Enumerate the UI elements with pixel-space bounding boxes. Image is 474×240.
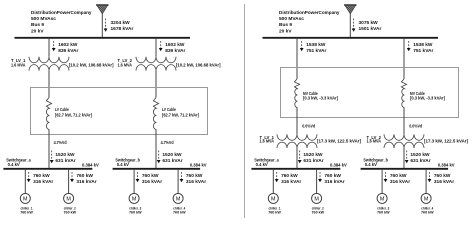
svg-text:316 kVAr: 316 kVAr <box>33 179 53 185</box>
switchgear flow labels Switchgear_b (R) <box>410 152 430 164</box>
cable LV Cable 1 <box>46 98 51 130</box>
wire Switchgear_b (L) to chiller_3 <box>133 169 135 194</box>
svg-text:0.4 kV: 0.4 kV <box>8 162 20 167</box>
load flow labels chiller_3 (R) <box>390 173 410 185</box>
svg-text:M: M <box>176 196 181 202</box>
motor labels chiller_2 (L) <box>64 206 77 215</box>
svg-text:1602 kW: 1602 kW <box>58 42 78 48</box>
bus Switchgear_a (L) 0.4 kV <box>3 168 92 170</box>
divider line between subsystems <box>244 4 246 218</box>
svg-text:20 kV: 20 kV <box>279 28 292 34</box>
svg-text:316 kVAr: 316 kVAr <box>390 179 410 185</box>
svg-text:[10.2 kW, 106.68 kVAr]: [10.2 kW, 106.68 kVAr] <box>69 63 114 68</box>
switchgear name label Switchgear_b (R) <box>363 157 388 167</box>
svg-text:0.0%Vd: 0.0%Vd <box>409 123 422 128</box>
svg-text:M: M <box>271 196 276 202</box>
wire LV Cable 2 to Switchgear <box>155 130 157 169</box>
svg-text:0.384 kV: 0.384 kV <box>82 163 99 168</box>
svg-text:316 kVAr: 316 kVAr <box>434 179 454 185</box>
load flow arrow chiller_2 (L) <box>70 172 74 182</box>
load flow arrow chiller_1 (R) <box>275 172 279 182</box>
transformer T_LV_2 1.6 MVA (R) <box>384 134 424 148</box>
load flow arrow chiller_3 (R) <box>384 172 388 182</box>
svg-text:LV Cable: LV Cable <box>162 107 176 112</box>
motor chiller_3 (L) <box>129 193 139 203</box>
switchgear flow arrow Switchgear_b (L) <box>157 151 161 164</box>
svg-text:760 kW: 760 kW <box>173 210 186 215</box>
switchgear flow arrow Switchgear_a (R) <box>298 151 302 164</box>
svg-text:1520 kW: 1520 kW <box>55 152 75 158</box>
motor labels chiller_2 (R) <box>312 206 325 215</box>
svg-text:0.0%Vd: 0.0%Vd <box>302 123 315 128</box>
cable LV Cable 2 labels <box>162 107 200 118</box>
svg-text:DistributionPowerCompany: DistributionPowerCompany <box>279 10 340 16</box>
load flow labels chiller_3 (L) <box>142 173 162 185</box>
feeder value labels branch 2 <box>165 42 185 54</box>
svg-text:316 kVAr: 316 kVAr <box>76 179 96 185</box>
svg-text:[0.3 kW, -3.3 kVAr]: [0.3 kW, -3.3 kVAr] <box>410 96 446 101</box>
load flow labels chiller_2 (R) <box>324 173 344 185</box>
svg-text:3204 kW: 3204 kW <box>111 20 131 26</box>
svg-text:316 kVAr: 316 kVAr <box>324 179 344 185</box>
svg-text:3075 kW: 3075 kW <box>359 20 379 26</box>
svg-text:1538 kW: 1538 kW <box>306 42 326 48</box>
motor labels chiller_3 (L) <box>129 206 142 215</box>
svg-text:751 kVAr: 751 kVAr <box>306 48 326 54</box>
wire Switchgear_a (L) to chiller_2 <box>68 169 70 194</box>
svg-text:[10.2 kW, 106.68 kVAr]: [10.2 kW, 106.68 kVAr] <box>176 63 221 68</box>
svg-text:760 kW: 760 kW <box>142 173 159 179</box>
svg-text:760 kW: 760 kW <box>324 173 341 179</box>
svg-text:500 MVAsc: 500 MVAsc <box>31 16 56 22</box>
grid infeed flow arrow (L) <box>104 19 108 32</box>
wire MV Cable 1 to T_LV_1 (R) <box>296 108 298 135</box>
load flow arrow chiller_2 (R) <box>318 172 322 182</box>
svg-text:760 kW: 760 kW <box>186 173 203 179</box>
svg-text:1520 kW: 1520 kW <box>410 152 430 158</box>
switchgear name label Switchgear_a (R) <box>254 157 279 167</box>
wire Bus 9 to T_LV_1 <box>48 38 50 57</box>
svg-text:839 kVAr: 839 kVAr <box>58 48 78 54</box>
motor chiller_2 (L) <box>64 193 74 203</box>
transformer T_LV_1 name label <box>11 58 26 67</box>
svg-text:1501 kVAr: 1501 kVAr <box>359 26 382 32</box>
feeder value labels branch 4 <box>413 42 433 54</box>
wire Switchgear_b (R) to chiller_3 <box>381 169 383 194</box>
svg-text:500 MVAsc: 500 MVAsc <box>279 16 304 22</box>
bus Switchgear_b (L) 0.4 kV <box>113 168 201 170</box>
svg-text:0.4 kV: 0.4 kV <box>365 162 377 167</box>
transformer T_LV_2 1.6 MVA <box>136 57 176 71</box>
svg-text:839 kVAr: 839 kVAr <box>165 48 185 54</box>
cable MV Cable 1 <box>294 79 299 107</box>
svg-text:Bus 9: Bus 9 <box>279 22 292 28</box>
wire grid to Bus 9 (L) <box>101 14 103 38</box>
svg-text:Bus 9: Bus 9 <box>31 22 44 28</box>
external grid DistributionPowerCompany (R) <box>315 5 384 15</box>
grid infeed value labels (R) <box>359 20 382 32</box>
switchgear flow labels Switchgear_a (R) <box>303 152 323 164</box>
motor labels chiller_4 (L) <box>173 206 186 215</box>
motor chiller_4 (L) <box>173 193 183 203</box>
svg-text:1.6 MVA: 1.6 MVA <box>260 138 275 143</box>
cable MV Cable 2 <box>401 79 406 107</box>
transformer T_LV_1 name label (R) <box>260 135 275 144</box>
svg-text:0.384 kV: 0.384 kV <box>438 163 455 168</box>
wire T_LV_1 to Switchgear (R) <box>296 148 298 169</box>
wire T_LV_2 to LV Cable 2 <box>155 71 157 98</box>
svg-text:[62.7 kW, 71.2 kVAr]: [62.7 kW, 71.2 kVAr] <box>162 113 200 118</box>
svg-text:0.384 kV: 0.384 kV <box>330 163 347 168</box>
wire T_LV_2 to Switchgear (R) <box>403 148 405 169</box>
svg-text:760 kW: 760 kW <box>390 173 407 179</box>
grid infeed value labels (L) <box>111 20 134 32</box>
wire Switchgear_a (R) to chiller_1 <box>272 169 274 194</box>
svg-text:0.384 kV: 0.384 kV <box>190 163 207 168</box>
svg-text:760 kW: 760 kW <box>20 210 33 215</box>
svg-text:1.6 MVA: 1.6 MVA <box>118 62 133 67</box>
wire grid to Bus 9 (R) <box>349 14 351 38</box>
feeder flow arrow branch 3 <box>300 41 304 51</box>
svg-text:4.7%Vd: 4.7%Vd <box>161 140 174 145</box>
wire MV Cable 2 to T_LV_2 (R) <box>403 108 405 135</box>
svg-text:1678 kVAr: 1678 kVAr <box>111 26 134 32</box>
bus Bus 9 20 kV (L) <box>15 37 191 39</box>
svg-text:316 kVAr: 316 kVAr <box>281 179 301 185</box>
svg-text:[0.3 kW, -3.3 kVAr]: [0.3 kW, -3.3 kVAr] <box>303 96 339 101</box>
wire Bus 9 to MV Cable 2 <box>403 38 405 79</box>
svg-text:1520 kW: 1520 kW <box>162 152 182 158</box>
wire Switchgear_a (L) to chiller_1 <box>24 169 26 194</box>
boundary box MV cables (R) <box>281 68 459 118</box>
switchgear flow arrow Switchgear_a (L) <box>50 151 54 164</box>
svg-text:760 kW: 760 kW <box>377 210 390 215</box>
svg-text:631 kVAr: 631 kVAr <box>55 158 75 164</box>
bus Switchgear_a (R) 0.4 kV <box>251 168 340 170</box>
svg-text:1.6 MVA: 1.6 MVA <box>367 138 382 143</box>
motor labels chiller_3 (R) <box>377 206 390 215</box>
load flow arrow chiller_4 (L) <box>180 172 184 182</box>
svg-text:760 kW: 760 kW <box>76 173 93 179</box>
transformer T_LV_2 name label <box>118 58 133 67</box>
wire Switchgear_b (L) to chiller_4 <box>177 169 179 194</box>
wire T_LV_1 to LV Cable 1 <box>48 71 50 98</box>
svg-text:[17.3 kW, 122.5 kVAr]: [17.3 kW, 122.5 kVAr] <box>424 138 469 143</box>
feeder flow arrow branch 1 <box>52 41 56 51</box>
svg-text:LV Cable: LV Cable <box>55 107 69 112</box>
transformer T_LV_2 name label (R) <box>367 135 382 144</box>
svg-text:316 kVAr: 316 kVAr <box>142 179 162 185</box>
load flow labels chiller_4 (L) <box>186 173 206 185</box>
svg-text:316 kVAr: 316 kVAr <box>186 179 206 185</box>
svg-text:[17.3 kW, 122.5 kVAr]: [17.3 kW, 122.5 kVAr] <box>317 138 362 143</box>
bus Switchgear_b (R) 0.4 kV <box>361 168 449 170</box>
svg-text:20 kV: 20 kV <box>31 28 44 34</box>
svg-text:DistributionPowerCompany: DistributionPowerCompany <box>31 10 92 16</box>
svg-text:1.6 MVA: 1.6 MVA <box>11 62 26 67</box>
svg-text:760 kW: 760 kW <box>281 173 298 179</box>
svg-text:M: M <box>380 196 385 202</box>
svg-text:631 kVAr: 631 kVAr <box>303 158 323 164</box>
svg-text:760 kW: 760 kW <box>312 210 325 215</box>
bus Bus 9 20 kV (R) <box>263 37 439 39</box>
svg-text:760 kW: 760 kW <box>64 210 77 215</box>
load flow labels chiller_2 (L) <box>76 173 96 185</box>
switchgear flow labels Switchgear_b (L) <box>162 152 182 164</box>
cable MV Cable 2 labels <box>410 91 446 101</box>
motor labels chiller_4 (R) <box>421 206 434 215</box>
cable LV Cable 2 <box>153 98 158 130</box>
transformer T_LV_1 1.6 MVA (R) <box>277 134 317 148</box>
motor chiller_1 (R) <box>268 193 278 203</box>
external grid DistributionPowerCompany (L) <box>67 5 136 15</box>
wire Bus 9 to T_LV_2 <box>155 38 157 57</box>
node Bus 9 info text (L) <box>31 10 92 35</box>
wire LV Cable 1 to Switchgear <box>48 130 50 169</box>
motor labels chiller_1 (L) <box>20 206 33 215</box>
load flow arrow chiller_1 (L) <box>27 172 31 182</box>
grid infeed flow arrow (R) <box>352 19 356 32</box>
svg-text:760 kW: 760 kW <box>421 210 434 215</box>
load flow arrow chiller_3 (L) <box>136 172 140 182</box>
svg-text:760 kW: 760 kW <box>268 210 281 215</box>
svg-text:631 kVAr: 631 kVAr <box>410 158 430 164</box>
motor chiller_2 (R) <box>312 193 322 203</box>
svg-text:1602 kW: 1602 kW <box>165 42 185 48</box>
node Bus 9 info text (R) <box>279 10 340 35</box>
boundary box LV cables (L) <box>31 88 208 135</box>
svg-text:0.4 kV: 0.4 kV <box>117 162 129 167</box>
switchgear flow labels Switchgear_a (L) <box>55 152 75 164</box>
svg-text:760 kW: 760 kW <box>129 210 142 215</box>
cable MV Cable 1 labels <box>303 91 339 101</box>
load flow labels chiller_4 (R) <box>434 173 454 185</box>
switchgear flow arrow Switchgear_b (R) <box>405 151 409 164</box>
wire Switchgear_b (R) to chiller_4 <box>425 169 427 194</box>
load flow labels chiller_1 (L) <box>33 173 53 185</box>
motor chiller_4 (R) <box>421 193 431 203</box>
svg-text:1520 kW: 1520 kW <box>303 152 323 158</box>
svg-text:4.7%Vd: 4.7%Vd <box>54 140 67 145</box>
motor labels chiller_1 (R) <box>268 206 281 215</box>
svg-text:760 kW: 760 kW <box>434 173 451 179</box>
svg-text:M: M <box>314 196 319 202</box>
svg-text:M: M <box>23 196 28 202</box>
wire Switchgear_a (R) to chiller_2 <box>316 169 318 194</box>
load flow arrow chiller_4 (R) <box>428 172 432 182</box>
wire Bus 9 to MV Cable 1 <box>296 38 298 79</box>
feeder flow arrow branch 2 <box>159 41 163 51</box>
svg-text:631 kVAr: 631 kVAr <box>162 158 182 164</box>
svg-text:1538 kW: 1538 kW <box>413 42 433 48</box>
feeder value labels branch 1 <box>58 42 78 54</box>
motor chiller_1 (L) <box>20 193 30 203</box>
svg-text:[62.7 kW, 71.2 kVAr]: [62.7 kW, 71.2 kVAr] <box>55 113 93 118</box>
cable LV Cable 1 labels <box>55 107 93 118</box>
svg-text:M: M <box>66 196 71 202</box>
svg-text:760 kW: 760 kW <box>33 173 50 179</box>
feeder flow arrow branch 4 <box>407 41 411 51</box>
motor chiller_3 (R) <box>377 193 387 203</box>
svg-text:751 kVAr: 751 kVAr <box>413 48 433 54</box>
svg-text:M: M <box>132 196 137 202</box>
switchgear name label Switchgear_b (L) <box>115 157 140 167</box>
feeder value labels branch 3 <box>306 42 326 54</box>
svg-text:0.4 kV: 0.4 kV <box>256 162 268 167</box>
switchgear name label Switchgear_a (L) <box>6 157 31 167</box>
svg-text:M: M <box>424 196 429 202</box>
load flow labels chiller_1 (R) <box>281 173 301 185</box>
transformer T_LV_1 1.6 MVA <box>29 57 69 71</box>
